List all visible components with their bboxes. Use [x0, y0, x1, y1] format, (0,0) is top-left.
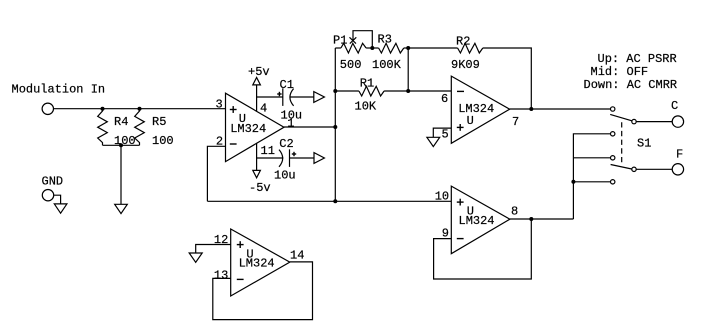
resistor R4	[98, 109, 108, 146]
wire branch to C1	[257, 96, 283, 98]
ground U2 pin 5	[427, 137, 440, 146]
pin 11 power	[256, 143, 258, 171]
svg-text:R1: R1	[360, 77, 374, 91]
svg-text:10: 10	[435, 190, 449, 204]
junction U1 out at rail	[333, 125, 337, 129]
op-amp U1 LM324	[226, 93, 285, 161]
wire to ground	[120, 145, 122, 204]
junction U3 out / feedback	[529, 217, 533, 221]
svg-text:R5: R5	[152, 115, 166, 129]
svg-text:13: 13	[214, 269, 228, 283]
svg-text:100K: 100K	[372, 58, 402, 72]
pin 8 output wire U3	[510, 218, 574, 220]
ground arrow right C2	[314, 153, 324, 164]
wire switch rail	[573, 134, 610, 219]
svg-text:14: 14	[290, 249, 304, 263]
power +5v arrow	[253, 78, 261, 85]
svg-text:LM324: LM324	[459, 214, 495, 228]
junction R4/R5 bottom	[119, 143, 123, 147]
svg-text:LM324: LM324	[458, 102, 494, 116]
svg-text:1: 1	[287, 116, 294, 130]
switch blade lower	[611, 165, 632, 170]
wire input row to U1 pin 3	[54, 108, 226, 110]
node F terminal	[672, 164, 683, 175]
wire rail stub mid	[573, 157, 610, 159]
svg-text:C1: C1	[280, 78, 294, 92]
wire C2 to ground arrow	[290, 157, 315, 159]
wire R4/R5 bottom bar	[103, 144, 140, 146]
switch link dashed	[621, 122, 623, 163]
switch S1	[611, 107, 615, 111]
wire GND stub	[54, 195, 61, 204]
node C terminal	[672, 116, 683, 127]
svg-text:F: F	[676, 148, 683, 162]
wire branch to C2	[257, 157, 284, 159]
pin 1 output wire U1	[284, 126, 335, 128]
wire R3 to node	[404, 47, 408, 49]
svg-text:R3: R3	[378, 33, 392, 47]
wire R2 to U2 output	[483, 48, 532, 109]
svg-text:GND: GND	[42, 175, 64, 189]
pin 7 output wire U2	[510, 108, 611, 110]
ground U4 pin 12	[189, 253, 202, 262]
wire P1 to R3	[366, 47, 379, 49]
svg-text:P1: P1	[333, 33, 347, 47]
svg-text:+5v: +5v	[248, 65, 270, 79]
svg-text:3: 3	[216, 98, 223, 112]
svg-text:LM324: LM324	[230, 122, 266, 136]
svg-text:10K: 10K	[355, 100, 377, 114]
svg-text:-5v: -5v	[249, 181, 271, 195]
junction U2 out / R2	[529, 107, 533, 111]
junction rail at R1 row	[333, 89, 337, 93]
svg-text:9K09: 9K09	[451, 58, 480, 72]
capacitor C2	[279, 150, 283, 167]
wire P1 wiper loop	[353, 31, 372, 48]
op-amp U3 LM324	[451, 186, 510, 254]
wire pole to C terminal	[636, 121, 672, 123]
op-amp U2 LM324	[451, 76, 509, 143]
resistor R1	[335, 90, 359, 92]
svg-text:U: U	[467, 114, 474, 128]
svg-text:Mid: OFF: Mid: OFF	[591, 65, 649, 79]
svg-text:7: 7	[512, 115, 519, 129]
svg-text:5: 5	[442, 127, 449, 141]
wire C1 to ground arrow	[290, 96, 314, 98]
wire bottom run pin2 to U3 pin 10	[207, 200, 451, 202]
svg-text:LM324: LM324	[239, 256, 275, 270]
junction R4 top	[101, 107, 105, 111]
svg-text:500: 500	[340, 58, 362, 72]
wire U1 pin 2 feedback to bottom run	[207, 146, 225, 201]
ground GND symbol	[54, 204, 67, 213]
svg-text:C2: C2	[279, 137, 293, 151]
svg-text:Down: AC CMRR: Down: AC CMRR	[584, 78, 678, 92]
junction R1 right node	[406, 89, 410, 93]
node Modulation In terminal	[42, 103, 53, 114]
svg-text:R2: R2	[456, 35, 470, 49]
op-amp U4 LM324	[231, 229, 290, 296]
svg-text:Up: AC PSRR: Up: AC PSRR	[598, 52, 677, 66]
svg-text:8: 8	[511, 205, 518, 219]
junction R3/R2 node	[406, 46, 410, 50]
wire R1 to U2 pin 6	[384, 90, 451, 92]
svg-text:Modulation In: Modulation In	[12, 83, 106, 97]
junction rail bottom stub	[571, 180, 575, 184]
wire U3 pin 9 feedback	[434, 219, 532, 279]
svg-text:S1: S1	[637, 137, 651, 151]
svg-text:11: 11	[261, 144, 275, 158]
wire node vertical link	[407, 48, 409, 91]
resistor R5	[135, 109, 145, 146]
wire U4 pin 12 to ground	[196, 245, 231, 254]
resistor R3	[379, 43, 404, 53]
pin 4 power	[256, 85, 258, 111]
svg-text:100: 100	[152, 134, 174, 148]
junction R5 top	[138, 107, 142, 111]
potentiometer P1	[335, 47, 341, 49]
wire pole to F terminal	[636, 168, 672, 170]
junction P1 wiper to R3	[370, 46, 374, 50]
ground under R4/R5	[115, 204, 128, 213]
power -5v arrow	[253, 170, 261, 177]
svg-text:4: 4	[260, 102, 267, 116]
wire U4 pin 13 feedback	[213, 262, 313, 320]
capacitor C1	[282, 88, 284, 106]
junction rail at bottom run	[333, 199, 337, 203]
svg-text:6: 6	[441, 92, 448, 106]
wire rail vertical	[334, 48, 336, 201]
wire rail stub bottom	[573, 181, 610, 183]
wire U2 pin 5 to ground	[433, 128, 451, 137]
resistor R2	[408, 47, 457, 49]
svg-text:10u: 10u	[274, 169, 296, 183]
svg-text:C: C	[671, 99, 678, 113]
switch blade upper	[610, 114, 632, 120]
ground arrow right C1	[314, 92, 325, 103]
svg-text:R4: R4	[114, 115, 128, 129]
